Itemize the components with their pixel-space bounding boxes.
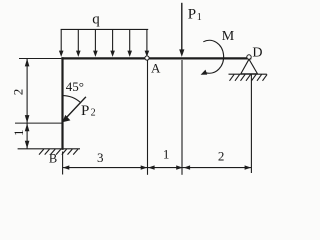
svg-text:P: P [81, 103, 89, 119]
svg-text:M: M [222, 29, 235, 44]
svg-text:D: D [252, 46, 262, 61]
svg-text:1: 1 [197, 12, 202, 23]
svg-text:B: B [49, 151, 57, 165]
svg-text:q: q [92, 12, 100, 28]
svg-text:2: 2 [218, 148, 225, 163]
svg-text:3: 3 [97, 150, 104, 165]
svg-text:P: P [188, 7, 196, 23]
svg-text:2: 2 [10, 89, 25, 96]
svg-text:1: 1 [163, 146, 170, 161]
svg-text:45°: 45° [66, 79, 84, 94]
svg-text:1: 1 [11, 130, 26, 137]
svg-text:2: 2 [91, 108, 96, 119]
svg-text:A: A [151, 61, 161, 76]
